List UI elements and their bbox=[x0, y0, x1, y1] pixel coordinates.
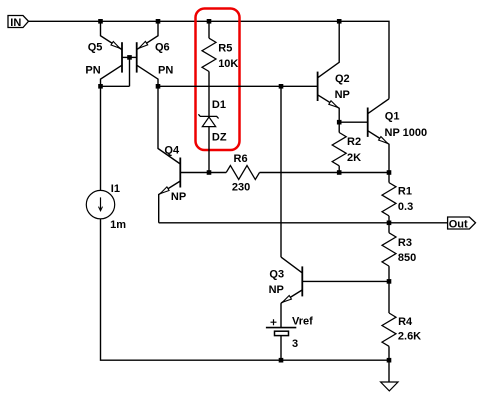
svg-text:Q5: Q5 bbox=[88, 42, 103, 54]
port Out bbox=[448, 217, 476, 229]
battery plus sign bbox=[271, 319, 277, 325]
current source I1 bbox=[86, 190, 114, 218]
wire Q3 emitter to Vref bbox=[280, 303, 282, 328]
svg-text:230: 230 bbox=[232, 181, 250, 193]
svg-text:R2: R2 bbox=[347, 136, 361, 148]
svg-text:R3: R3 bbox=[398, 237, 412, 249]
svg-text:Q4: Q4 bbox=[164, 144, 180, 156]
wire R2 top lead bbox=[338, 122, 340, 132]
svg-text:3: 3 bbox=[292, 338, 298, 350]
svg-text:NP 1000: NP 1000 bbox=[385, 127, 428, 139]
svg-text:R4: R4 bbox=[398, 316, 413, 328]
svg-text:Vref: Vref bbox=[292, 316, 313, 328]
resistor R2 bbox=[332, 133, 346, 166]
svg-text:NP: NP bbox=[335, 89, 350, 101]
transistor Q6 (PNP) bbox=[136, 42, 138, 72]
transistor Q5 (PNP) bbox=[121, 42, 123, 72]
svg-text:NP: NP bbox=[269, 284, 284, 296]
svg-text:Q1: Q1 bbox=[385, 110, 400, 122]
wire Q3 collector riser bbox=[280, 86, 282, 257]
node bottom rail / ground bbox=[387, 358, 392, 363]
wire Vref to bottom rail bbox=[280, 336, 282, 361]
wire Q2 emitter to Q1 base bbox=[339, 121, 368, 123]
node Q1 emitter / R1 top bbox=[387, 170, 392, 175]
wire R3 top lead bbox=[388, 223, 390, 233]
highlight box around R5 and D1 bbox=[196, 9, 240, 151]
wire Q5 collector down to I1 bbox=[100, 86, 102, 190]
node base link bbox=[127, 55, 132, 60]
node Q4 base / D1 / R6 bbox=[207, 170, 212, 175]
svg-text:0.3: 0.3 bbox=[398, 201, 413, 213]
svg-text:2.6K: 2.6K bbox=[398, 331, 421, 343]
wire R4 top lead bbox=[388, 281, 390, 313]
svg-text:850: 850 bbox=[398, 252, 416, 264]
wire R1 bottom lead bbox=[388, 216, 390, 223]
resistor R6 bbox=[226, 166, 259, 180]
transistor Q2 (NPN) bbox=[317, 72, 319, 101]
svg-text:10K: 10K bbox=[218, 58, 238, 70]
node mid rail / Q3 collector branch bbox=[279, 84, 284, 89]
wire R2 bottom lead bbox=[338, 166, 340, 173]
svg-text:PN: PN bbox=[85, 64, 100, 76]
node Vref bottom bbox=[279, 358, 284, 363]
svg-text:Q6: Q6 bbox=[155, 42, 170, 54]
transistor Q3 (NPN, mirrored) bbox=[301, 266, 303, 296]
svg-text:IN: IN bbox=[10, 17, 21, 29]
node R1 / R3 / Out bbox=[387, 221, 392, 226]
node top rail / Q2 collector bbox=[337, 19, 342, 24]
wire Q4 emitter rail to Out bbox=[159, 222, 448, 224]
resistor R1 bbox=[382, 183, 396, 216]
node Q2 emitter / R2 / Q1 base bbox=[337, 120, 342, 125]
wire R3 bottom lead bbox=[388, 266, 390, 281]
node top rail / Q6 emitter bbox=[156, 19, 161, 24]
node top rail / R5 top bbox=[207, 19, 212, 24]
svg-text:D1: D1 bbox=[212, 99, 226, 111]
wire R6 to Q1 emitter node bbox=[260, 172, 390, 174]
wire R4 bottom lead bbox=[388, 346, 390, 360]
wire I1 to bottom rail bbox=[101, 219, 390, 360]
node Q5 collector bbox=[98, 84, 103, 89]
resistor R5 bbox=[202, 38, 216, 71]
svg-text:Out: Out bbox=[449, 219, 468, 231]
svg-text:I1: I1 bbox=[111, 183, 120, 195]
node Q6 collector bbox=[156, 84, 161, 89]
wire D1 bottom to Q4 base node bbox=[208, 127, 210, 173]
node top rail / Q5 emitter bbox=[98, 19, 103, 24]
wire R5 top lead bbox=[208, 21, 210, 38]
svg-text:R1: R1 bbox=[398, 186, 412, 198]
wire R6 left lead bbox=[209, 172, 226, 174]
svg-text:Q2: Q2 bbox=[335, 73, 350, 85]
svg-text:DZ: DZ bbox=[212, 131, 227, 143]
svg-text:NP: NP bbox=[171, 191, 186, 203]
wire left node horizontal bbox=[101, 85, 130, 87]
wire mid rail to Q2 base bbox=[158, 85, 318, 87]
node R2 bottom bbox=[337, 170, 342, 175]
voltage source Vref (battery) bbox=[266, 327, 296, 329]
svg-text:2K: 2K bbox=[347, 152, 361, 164]
transistor Q4 (NPN, mirrored) bbox=[179, 158, 181, 188]
svg-text:R5: R5 bbox=[218, 42, 232, 54]
svg-text:1m: 1m bbox=[110, 219, 126, 231]
wire base link Q5-Q6 bbox=[122, 56, 137, 58]
svg-text:Q3: Q3 bbox=[269, 268, 284, 280]
wire R1 top lead bbox=[388, 173, 390, 183]
node R3 / R4 / Q3 base bbox=[387, 279, 392, 284]
svg-text:PN: PN bbox=[158, 64, 173, 76]
resistor R4 bbox=[382, 313, 396, 346]
port IN bbox=[8, 16, 29, 28]
resistor R3 bbox=[382, 233, 396, 266]
ground bbox=[388, 360, 390, 382]
svg-text:R6: R6 bbox=[234, 153, 248, 165]
wire base tap down to left node bbox=[129, 57, 131, 86]
transistor Q1 (NPN) bbox=[367, 108, 369, 137]
wire R5 to D1 bbox=[208, 72, 210, 117]
diode D1 (zener DZ) bbox=[198, 114, 218, 118]
wire top rail from IN to Q1 collector bbox=[29, 21, 390, 99]
